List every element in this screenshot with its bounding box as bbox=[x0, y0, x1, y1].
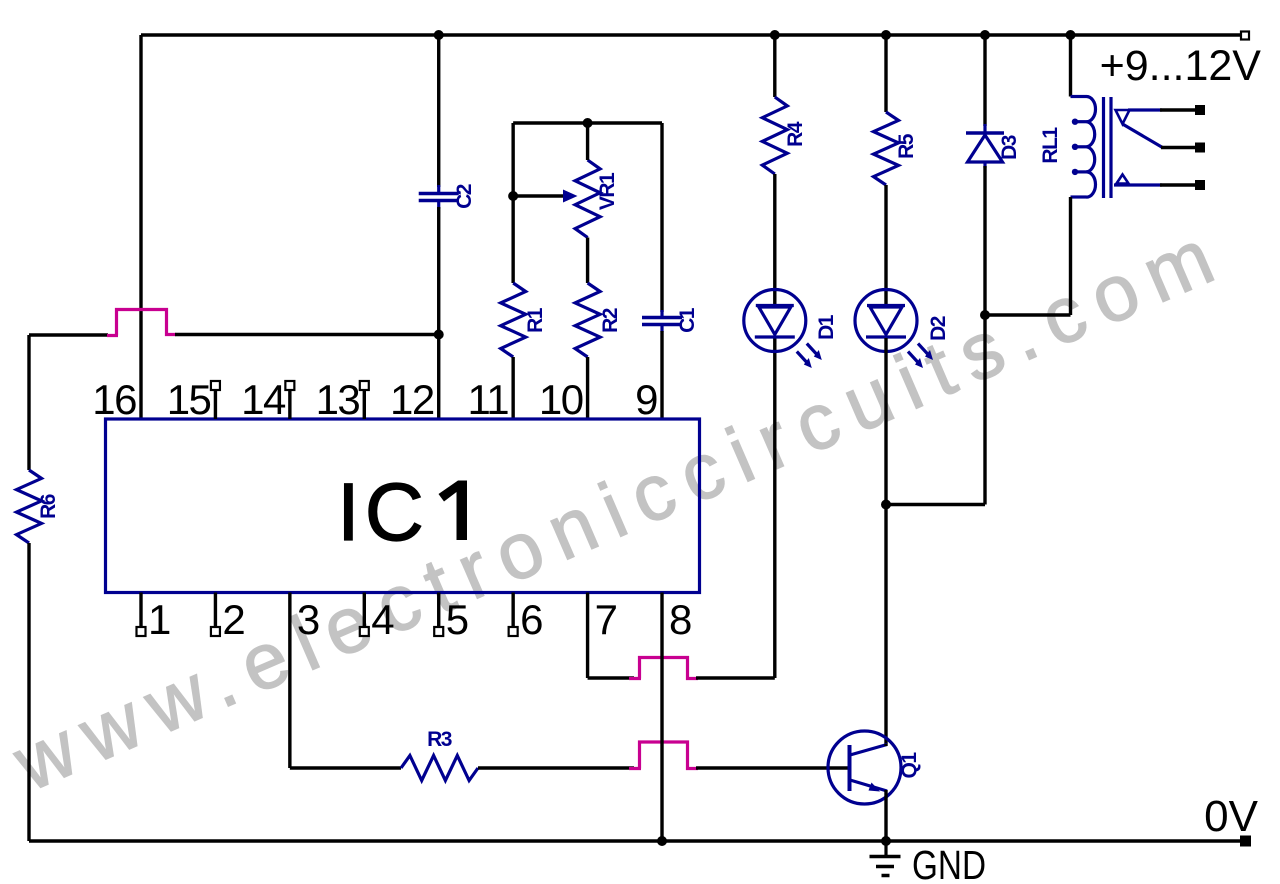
diode D3 bbox=[983, 124, 986, 133]
resistor R3 bbox=[401, 756, 478, 781]
node junction top rail D3 bbox=[980, 30, 990, 40]
svg-text:R6: R6 bbox=[37, 494, 60, 519]
pin 14 stub bbox=[288, 390, 291, 419]
svg-text:RL1: RL1 bbox=[1039, 127, 1062, 164]
node junction Q1 rail bbox=[881, 836, 891, 846]
capacitor C2 bbox=[437, 185, 440, 192]
capacitor C1 bbox=[660, 310, 663, 316]
wire hop J3 (magenta) bbox=[629, 742, 698, 769]
transistor Q1 bbox=[828, 731, 901, 804]
wire RL1 upper bbox=[1069, 35, 1072, 97]
pin 5 stub bbox=[437, 593, 440, 628]
node junction top rail C2 bbox=[434, 30, 444, 40]
terminal +V (open square) bbox=[1241, 32, 1249, 40]
svg-text:6: 6 bbox=[520, 596, 542, 643]
wire hop J3 to Q1 base bbox=[696, 766, 849, 769]
wire top link pins 11-9 bbox=[513, 121, 662, 124]
wire contact2 bbox=[1160, 183, 1195, 186]
node junction top rail RL1 bbox=[1066, 30, 1076, 40]
wire C1 lower bbox=[660, 331, 663, 419]
svg-text:R1: R1 bbox=[524, 307, 547, 333]
relay pole bbox=[1123, 124, 1163, 148]
pin 1 stub bbox=[139, 593, 142, 628]
wire R5 upper bbox=[884, 35, 887, 112]
IC U1 border bbox=[106, 419, 700, 593]
relay contact NC bbox=[1116, 110, 1130, 124]
wire Q1 collector bbox=[884, 744, 887, 746]
svg-text:1: 1 bbox=[148, 596, 170, 643]
svg-text:9: 9 bbox=[635, 376, 657, 423]
wire hop J2 to D1 bbox=[696, 676, 775, 679]
wire wiper bbox=[513, 194, 564, 197]
node junction D2-D3 link bbox=[881, 500, 891, 510]
terminal contact2 bbox=[1195, 180, 1205, 190]
LED D1 bbox=[744, 290, 806, 352]
wire pole bbox=[1161, 146, 1195, 149]
svg-text:5: 5 bbox=[446, 596, 468, 643]
svg-text:D2: D2 bbox=[927, 316, 950, 341]
svg-text:11: 11 bbox=[468, 376, 509, 423]
node junction top rail R5 bbox=[881, 30, 891, 40]
wire R2 lower bbox=[586, 357, 589, 419]
wire R3 to hop bbox=[478, 766, 634, 769]
resistor R4 bbox=[762, 97, 787, 174]
pin 15 stub bbox=[214, 390, 217, 419]
node junction pin8 rail bbox=[657, 836, 667, 846]
svg-text:10: 10 bbox=[539, 376, 583, 423]
svg-text:C1: C1 bbox=[676, 307, 699, 333]
pin 2 stub bbox=[214, 593, 217, 628]
resistor R6 bbox=[17, 470, 42, 543]
node junction wiper bbox=[508, 191, 518, 201]
potentiometer wiper arrow bbox=[563, 190, 578, 203]
wire hop J2 (magenta) bbox=[629, 658, 698, 679]
wire R6 lower bbox=[27, 543, 30, 841]
inductor RL1 coil bbox=[1071, 95, 1087, 98]
wire R5 to D2 bbox=[884, 185, 887, 304]
node junction D3-RL1 bbox=[980, 310, 990, 320]
svg-text:4: 4 bbox=[371, 596, 394, 643]
wire bottom 0V rail bbox=[29, 839, 1240, 842]
wire R1 lower bbox=[511, 357, 514, 419]
svg-text:7: 7 bbox=[595, 596, 617, 643]
wire pin9 upper bbox=[660, 123, 663, 312]
wire hop J1 (magenta) bbox=[107, 310, 176, 336]
pin 13 stub bbox=[363, 390, 366, 419]
terminal contact1 bbox=[1195, 105, 1205, 115]
svg-text:D1: D1 bbox=[815, 314, 838, 340]
wire D3 upper bbox=[983, 35, 986, 126]
wire hop J1 to pin12 bbox=[175, 333, 439, 336]
LED D2 bbox=[855, 290, 917, 352]
wire R4 upper bbox=[773, 35, 776, 97]
wire R6 top horizontal bbox=[29, 333, 108, 336]
pin 6 stub bbox=[511, 593, 514, 628]
svg-text:R2: R2 bbox=[599, 308, 622, 333]
svg-text:R4: R4 bbox=[784, 121, 807, 147]
wire Q1 emitter bbox=[884, 790, 887, 841]
svg-text:Q1: Q1 bbox=[898, 752, 921, 779]
svg-text:16: 16 bbox=[92, 376, 136, 423]
svg-text:VR1: VR1 bbox=[596, 172, 619, 210]
wire R4 to D1 bbox=[773, 174, 776, 304]
wire R6 upper bbox=[27, 335, 30, 470]
svg-text:R5: R5 bbox=[895, 133, 918, 159]
wire VR1-R2 link bbox=[586, 238, 589, 284]
svg-text:13: 13 bbox=[316, 376, 360, 423]
resistor R5 bbox=[874, 112, 899, 185]
svg-text:8: 8 bbox=[669, 596, 691, 643]
wire pin3 to R3 bbox=[290, 766, 401, 769]
wire pin7 right bbox=[588, 676, 634, 679]
svg-text:14: 14 bbox=[241, 376, 286, 423]
potentiometer VR1 bbox=[575, 160, 600, 238]
terminal 0V (filled square) bbox=[1240, 836, 1251, 847]
wire C2 lower bbox=[437, 207, 440, 419]
node junction C2-column/wire bbox=[434, 330, 444, 340]
resistor R1 bbox=[501, 283, 526, 357]
svg-text:+9...12V: +9...12V bbox=[1100, 42, 1262, 90]
IC U1 body fill bbox=[106, 419, 700, 593]
pin 4 stub bbox=[363, 593, 366, 628]
terminal pole bbox=[1195, 143, 1205, 153]
wire top +V rail bbox=[141, 33, 1241, 36]
node junction VR1 top bbox=[583, 118, 593, 128]
wire VR1 top stub bbox=[586, 123, 589, 160]
wire D2 to collector bbox=[884, 338, 887, 744]
wire pin3 down bbox=[288, 593, 291, 769]
wire RL1 lower bbox=[1069, 197, 1072, 315]
svg-text:12: 12 bbox=[390, 376, 434, 423]
wire link D2-D3 bbox=[886, 503, 985, 506]
svg-text:15: 15 bbox=[167, 376, 211, 423]
resistor R2 bbox=[575, 283, 600, 357]
svg-text:GND: GND bbox=[912, 842, 986, 884]
svg-text:3: 3 bbox=[297, 596, 319, 643]
svg-text:0V: 0V bbox=[1204, 792, 1258, 841]
wire D1 bottom column bbox=[773, 338, 776, 678]
wire D3 lower bbox=[983, 166, 986, 505]
wire link D3-RL1 bbox=[985, 313, 1071, 316]
wire pin7 down bbox=[586, 593, 589, 679]
svg-text:C2: C2 bbox=[453, 184, 476, 209]
svg-text:2: 2 bbox=[222, 596, 244, 643]
relay core bbox=[1102, 97, 1105, 198]
ground GND bbox=[884, 841, 887, 856]
wire pin16 column bbox=[139, 35, 142, 419]
svg-text:D3: D3 bbox=[998, 135, 1021, 160]
svg-text:R3: R3 bbox=[427, 728, 452, 751]
node junction top rail R4 bbox=[770, 30, 780, 40]
wire contact1 bbox=[1160, 108, 1195, 111]
wire pin8 down bbox=[660, 593, 663, 842]
svg-text:IC: IC bbox=[337, 467, 429, 558]
wire C2 upper bbox=[437, 35, 440, 187]
relay contact NO bbox=[1117, 175, 1129, 184]
wire pin11 upper bbox=[511, 123, 514, 283]
